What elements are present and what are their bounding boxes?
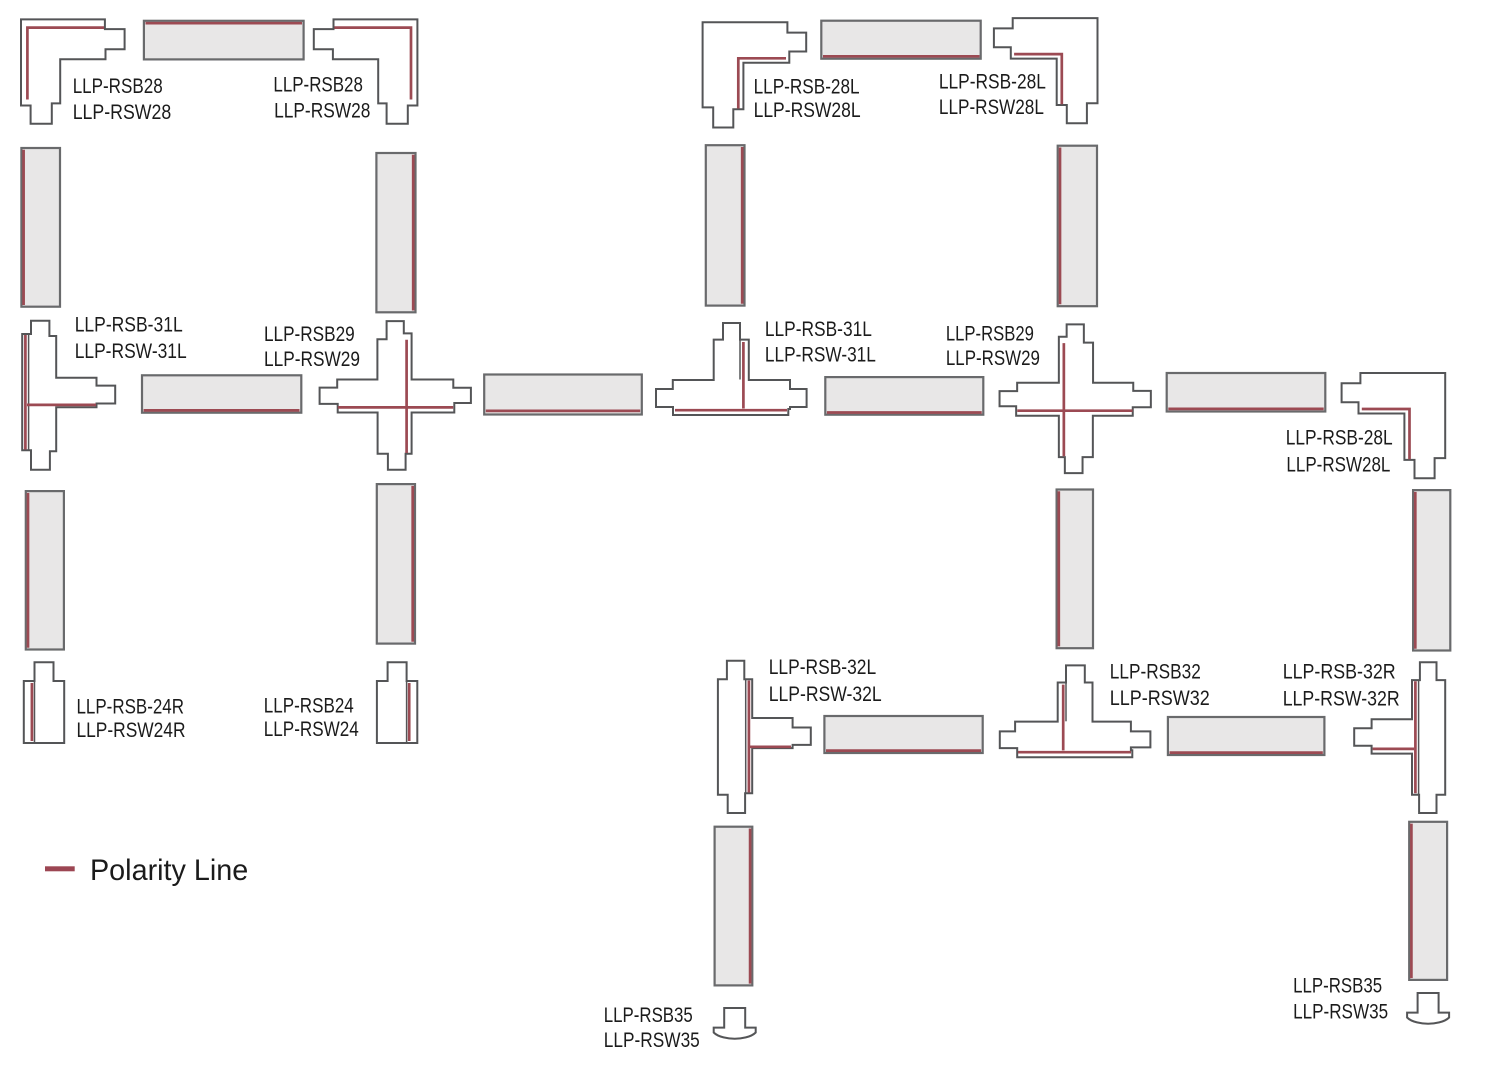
- L-connector U4 LLP-RSB-28L upper middle-right (mirrored): [994, 18, 1098, 123]
- track segment (middle row 4): [1167, 373, 1326, 412]
- X-connector U8 LLP-RSB29 middle-right (mirrored): [1000, 324, 1151, 473]
- svg-text:LLP-RSB-28L: LLP-RSB-28L: [754, 75, 860, 98]
- L-connector U1 LLP-RSB28 top-left: [21, 19, 125, 123]
- track segment (bottom row 1): [824, 716, 982, 753]
- label LLP-RSB-28L / LLP-RSW28L (pair 2 right): [939, 71, 1046, 119]
- svg-text:LLP-RSB28: LLP-RSB28: [73, 75, 163, 98]
- track segment (top row 1): [144, 21, 304, 60]
- svg-text:LLP-RSB29: LLP-RSB29: [264, 323, 355, 346]
- svg-text:LLP-RSW28L: LLP-RSW28L: [1286, 453, 1390, 476]
- label LLP-RSB28 / LLP-RSW28 (pair 1 right): [273, 74, 370, 123]
- svg-text:Polarity Line: Polarity Line: [90, 854, 248, 887]
- L-connector U3 LLP-RSB-28L upper middle-left: [703, 22, 807, 127]
- svg-text:LLP-RSB29: LLP-RSB29: [946, 323, 1034, 346]
- vertical track segment V1: [21, 148, 60, 307]
- svg-text:LLP-RSB35: LLP-RSB35: [604, 1004, 693, 1027]
- label LLP-RSB29 / LLP-RSW29 (left X): [264, 323, 360, 371]
- vertical track segment V2: [376, 153, 415, 312]
- vertical track segment V3: [706, 145, 745, 305]
- vertical track segment V8: [1413, 490, 1450, 650]
- T-connector U7 LLP-RSB-31L middle (stem up): [656, 323, 807, 415]
- T-connector U12 LLP-RSB-32L bottom-left: [718, 661, 811, 813]
- label LLP-RSB-28L / LLP-RSW28L (middle-right L): [1286, 427, 1393, 477]
- svg-text:LLP-RSB-31L: LLP-RSB-31L: [765, 318, 872, 341]
- svg-text:LLP-RSB35: LLP-RSB35: [1293, 975, 1382, 998]
- svg-text:LLP-RSB32: LLP-RSB32: [1110, 661, 1201, 684]
- svg-text:LLP-RSW-31L: LLP-RSW-31L: [765, 343, 876, 366]
- svg-text:LLP-RSW28: LLP-RSW28: [274, 100, 370, 123]
- svg-text:LLP-RSW28L: LLP-RSW28L: [939, 96, 1044, 119]
- end cap U10 LLP-RSB-24R bottom-left: [24, 662, 64, 743]
- svg-text:LLP-RSB-28L: LLP-RSB-28L: [1286, 427, 1393, 450]
- vertical track segment V9: [715, 827, 753, 986]
- label LLP-RSB24 / LLP-RSW24: [264, 694, 359, 741]
- track segment (middle row 3): [825, 377, 983, 415]
- svg-text:LLP-RSW24R: LLP-RSW24R: [77, 719, 186, 742]
- svg-text:LLP-RSW35: LLP-RSW35: [604, 1029, 700, 1052]
- end cap U15 LLP-RSB35 bottom-middle: [714, 1008, 756, 1039]
- end cap U11 LLP-RSB24 bottom (mirrored): [377, 662, 417, 743]
- svg-text:LLP-RSW-32L: LLP-RSW-32L: [769, 683, 882, 706]
- svg-text:LLP-RSW28L: LLP-RSW28L: [754, 99, 861, 122]
- track segment (middle row 1): [142, 375, 301, 412]
- label LLP-RSB-32R / LLP-RSW-32R: [1283, 661, 1400, 711]
- vertical track segment V10: [1409, 822, 1447, 980]
- svg-text:LLP-RSB-32L: LLP-RSB-32L: [769, 656, 877, 679]
- vertical track segment V4: [1058, 146, 1097, 307]
- label LLP-RSB-24R / LLP-RSW24R: [77, 695, 186, 742]
- svg-text:LLP-RSB-31L: LLP-RSB-31L: [75, 314, 183, 337]
- label LLP-RSB-28L / LLP-RSW28L (pair 2 left): [754, 75, 861, 122]
- vertical track segment V7: [1057, 490, 1093, 649]
- track segment (middle row 2): [484, 375, 642, 415]
- vertical track segment V5: [26, 491, 64, 649]
- svg-text:LLP-RSB28: LLP-RSB28: [273, 74, 363, 97]
- svg-text:LLP-RSW-32R: LLP-RSW-32R: [1283, 688, 1400, 711]
- T-connector U14 LLP-RSB-32R bottom-right: [1354, 662, 1445, 813]
- legend polarity line dash: [45, 866, 75, 871]
- svg-text:LLP-RSW24: LLP-RSW24: [264, 718, 359, 741]
- track segment (top row 2): [821, 21, 980, 59]
- X-connector U6 LLP-RSB29 middle-left: [320, 321, 471, 470]
- T-connector U5 LLP-RSB-31L middle-left: [22, 321, 115, 470]
- label LLP-RSB35 / LLP-RSW35 (bottom-middle): [604, 1004, 700, 1052]
- label LLP-RSB32 / LLP-RSW32: [1110, 661, 1210, 710]
- label LLP-RSB-31L / LLP-RSW-31L (middle T): [765, 318, 876, 366]
- svg-text:LLP-RSB-32R: LLP-RSB-32R: [1283, 661, 1396, 684]
- label LLP-RSB35 / LLP-RSW35 (bottom-right): [1293, 975, 1388, 1024]
- svg-text:LLP-RSW29: LLP-RSW29: [264, 348, 360, 371]
- label LLP-RSB-31L / LLP-RSW-31L (left T): [75, 314, 187, 363]
- svg-text:LLP-RSB-24R: LLP-RSB-24R: [77, 695, 185, 718]
- label LLP-RSB-32L / LLP-RSW-32L: [769, 656, 882, 706]
- svg-text:LLP-RSW32: LLP-RSW32: [1110, 687, 1210, 710]
- label LLP-RSB28 / LLP-RSW28 (pair 1 left): [73, 75, 172, 124]
- svg-text:LLP-RSB-28L: LLP-RSB-28L: [939, 71, 1046, 94]
- svg-text:LLP-RSW35: LLP-RSW35: [1293, 1001, 1388, 1024]
- svg-text:LLP-RSW29: LLP-RSW29: [946, 347, 1040, 370]
- svg-text:LLP-RSB24: LLP-RSB24: [264, 694, 354, 717]
- label LLP-RSB29 / LLP-RSW29 (right X): [946, 323, 1040, 371]
- L-connector U2 LLP-RSB28 top-right (mirrored): [314, 19, 418, 123]
- T-connector U13 LLP-RSB32 bottom middle (stem up): [1000, 665, 1151, 757]
- end cap U16 LLP-RSB35 bottom-right: [1407, 993, 1449, 1024]
- L-connector U9 LLP-RSB-28L middle-right (mirrored, shifted): [1342, 373, 1446, 478]
- vertical track segment V6: [377, 484, 415, 643]
- svg-text:LLP-RSW28: LLP-RSW28: [73, 101, 172, 124]
- svg-text:LLP-RSW-31L: LLP-RSW-31L: [75, 340, 187, 363]
- track segment (bottom row 2): [1168, 717, 1325, 755]
